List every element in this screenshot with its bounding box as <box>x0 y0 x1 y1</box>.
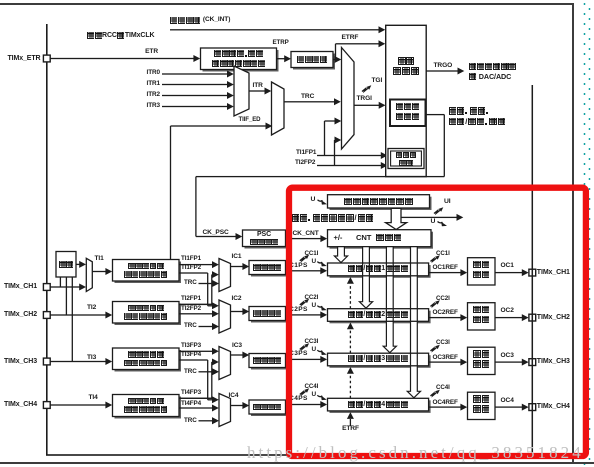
block PSC prescaler PSC预分频器 <box>245 232 288 249</box>
label IC3 <box>232 343 242 350</box>
label CC3I right <box>436 340 450 346</box>
text 预分频器 4 <box>249 404 286 411</box>
text 输出 2 <box>468 306 496 313</box>
label ITR2 <box>140 92 160 98</box>
wire IC4 mux to prescaler <box>231 405 244 406</box>
mux IC4 select <box>219 394 231 427</box>
chip boundary left line <box>46 24 48 456</box>
label TRGO <box>434 63 453 70</box>
label U (ARR update) <box>311 197 316 204</box>
text 控制 4 <box>468 405 496 412</box>
text 输出 1 <box>468 261 496 268</box>
mux trigger select (TRGI source) <box>342 48 355 150</box>
text 输入滤波 <box>291 56 333 63</box>
label U (capture 1) <box>312 259 317 265</box>
label TIMx_CH1 right <box>537 269 570 276</box>
text 输出 4 <box>468 395 496 402</box>
label TRC row4 <box>184 418 197 424</box>
text 编码器 <box>388 152 424 159</box>
block input filter & edge detector 2 输入滤波器和边沿检测器 <box>115 304 182 326</box>
label CK_PSC <box>203 230 229 237</box>
wire TRC from mux to trigger mux <box>284 101 335 102</box>
text 预分频器 <box>243 239 286 246</box>
label CC1I left <box>305 251 319 257</box>
wire TRC into IC4 mux <box>199 420 214 421</box>
block input filter & edge detector 1 输入滤波器和边沿检测器 <box>115 262 182 284</box>
wire ETRP polarity box to input filter <box>277 58 286 59</box>
text 输入滤波器 4 <box>113 398 180 405</box>
label TI2FP2 <box>181 306 201 312</box>
wire IC4PS prescaler to capture/compare 4 <box>286 404 322 405</box>
label TI1FP1 <box>181 256 201 262</box>
label TI1 <box>95 256 104 263</box>
label TIMx_ETR <box>4 55 41 62</box>
label ITR1 <box>140 81 160 87</box>
label IC4PS <box>287 396 308 403</box>
text 捕获/比较3寄存器 <box>328 355 429 362</box>
label TI3 <box>87 355 96 362</box>
label OC4REF <box>433 400 458 406</box>
wire TI4FP3 up to IC3 mux <box>179 398 212 399</box>
wire TRGI into slave mode controller <box>354 105 380 106</box>
label OC2 <box>501 308 514 315</box>
capture/compare register 2 box fill <box>330 311 431 324</box>
label IC2PS <box>287 307 308 314</box>
label U (capture 3) <box>312 347 317 353</box>
label TI2FP1 <box>181 296 201 302</box>
text 接口 <box>388 160 424 167</box>
wire ITR3 into ITR mux <box>162 106 228 107</box>
capture/compare register 3 box fill <box>330 355 431 368</box>
label OC2REF <box>433 310 458 316</box>
capture/compare register 4 border 捕获/比较4寄存器 <box>328 398 429 411</box>
wire IC1PS prescaler to capture/compare 1 <box>286 270 322 271</box>
page top rule <box>0 3 574 5</box>
label 停止、清除或向上/向下 <box>292 214 374 221</box>
label OC1REF <box>433 265 458 271</box>
capture/compare register 2 border 捕获/比较2寄存器 <box>328 309 429 322</box>
label TRC row1 <box>184 280 197 286</box>
wire IC2 mux to prescaler <box>231 311 244 312</box>
pin TIMx_CH4 output <box>529 404 536 411</box>
text +/- <box>334 234 343 242</box>
wire IC3PS prescaler to capture/compare 3 <box>286 359 322 360</box>
block output control 3 输出控制 <box>468 347 496 374</box>
block output control 1 输出控制 <box>468 258 496 285</box>
wire IC2PS prescaler to capture/compare 2 <box>286 314 322 315</box>
block encoder interface 编码器接口 (double border) <box>388 149 424 169</box>
label TI2FP2 (trigger) <box>295 160 315 166</box>
label TIMx_CH4 right <box>537 403 570 410</box>
wire TRC into IC3 mux <box>199 371 214 372</box>
label CC1I right <box>436 251 450 257</box>
label CK_CNT <box>293 231 319 238</box>
wire update event out to right <box>401 217 457 218</box>
label IC1 <box>232 254 242 261</box>
block output control 2 输出控制 <box>468 303 496 330</box>
text 从模式 <box>390 103 426 110</box>
capture/compare register 1 border 捕获/比较1寄存器 <box>328 263 429 276</box>
compare bus arrow CNT to capture/compare 3 <box>383 247 396 353</box>
label ETRF (bottom) <box>334 426 367 433</box>
label TI1FP1 (trigger) <box>296 150 316 156</box>
compare bus arrow CNT to capture/compare 4 <box>407 247 420 398</box>
text 极性选择、边沿 <box>201 50 277 57</box>
text 输入滤波器 1 <box>113 263 180 270</box>
interrupt CC4I right <box>431 393 437 396</box>
text PSC <box>243 231 286 238</box>
label OC3 <box>501 353 514 360</box>
wire OC2 to pin <box>495 317 523 318</box>
block prescaler 4 预分频器 <box>251 402 288 416</box>
event U~ capture 4 <box>317 395 322 396</box>
wire ITR mux to TRC mux <box>249 90 266 91</box>
wire XOR output to TI1 mux <box>76 264 81 265</box>
text 和边沿检测器 2 <box>113 313 180 320</box>
label UI <box>444 199 451 206</box>
wire OC2REF capture to output control <box>429 317 462 318</box>
label U (capture 4) <box>312 392 317 398</box>
wire OC3REF capture to output control <box>429 361 462 362</box>
label ETR <box>142 49 158 56</box>
label TIMx_CH3 right <box>537 358 570 365</box>
block input filter & edge detector 3 输入滤波器和边沿检测器 <box>115 350 182 372</box>
watermark <box>247 443 584 463</box>
label ETRF <box>342 35 359 42</box>
text 和边沿检测器 4 <box>113 406 180 413</box>
label CC3I left <box>305 339 319 345</box>
text 捕获/比较1寄存器 <box>328 265 429 272</box>
label ITR3 <box>140 103 160 109</box>
text 输入滤波器 2 <box>113 305 180 312</box>
mux ITR select (ITR0-ITR3) <box>234 66 249 116</box>
wire ETRF: filter output, branch to trigger ctrl and TRGI mux <box>333 59 336 60</box>
mux IC1 select <box>219 259 231 292</box>
dashed ETRF line with up arrows into capture/compare registers <box>349 284 351 309</box>
pin TIMx_CH2 output <box>529 314 536 321</box>
label TRC row2 <box>184 323 197 329</box>
label TI1FP2 <box>181 265 201 271</box>
mux IC3 select <box>219 347 231 380</box>
text 控制器 <box>386 67 427 75</box>
label CC2I right <box>436 296 450 302</box>
interrupt CC4I left <box>300 391 306 394</box>
wire CK_INT to trigger controller <box>170 29 380 30</box>
mux TI1 select (xor/direct) <box>86 258 92 291</box>
label TRGI <box>357 96 372 103</box>
label ITR <box>253 83 263 90</box>
block XOR 异或 <box>56 252 76 278</box>
label 来自RCC的TIMxCLK <box>87 32 155 39</box>
event U~ capture 3 <box>317 350 322 351</box>
capture/compare register 3 border 捕获/比较3寄存器 <box>328 353 429 366</box>
compare bus arrow CNT to capture/compare 1 <box>334 247 347 263</box>
page bottom rule <box>0 462 594 464</box>
text 控制器 <box>390 113 426 120</box>
label CC4I right <box>436 385 450 391</box>
text 输入滤波器 3 <box>113 351 180 358</box>
wire TI3FP3 straight into mux <box>179 351 213 352</box>
label 向上/向下、计数 <box>449 118 506 125</box>
label OC4 <box>501 398 514 405</box>
label TIMx_CH4 left <box>3 401 37 408</box>
label TRC <box>301 94 314 101</box>
wire IC3 mux to prescaler <box>231 354 244 355</box>
text 和边沿检测器 1 <box>113 271 180 278</box>
label TIMx_CH2 right <box>537 314 570 321</box>
wire TI1FP1 straight into mux <box>179 264 213 265</box>
figure bottom border <box>46 454 573 456</box>
text 异或 <box>56 261 76 268</box>
text 预分频器 1 <box>249 264 286 271</box>
label IC3PS <box>287 351 308 358</box>
block auto-reload register 自动重装载寄存器 <box>330 197 432 210</box>
block prescaler 3 预分频器 <box>251 356 288 370</box>
interrupt CC3I right <box>431 348 437 351</box>
pin TIMx_CH4 (input) <box>43 402 50 409</box>
text 和边沿检测器 3 <box>113 360 180 367</box>
wire TI3FP4 down to IC4 mux <box>179 359 208 360</box>
wire TI1FP1 to encoder interface and trigger mux <box>317 155 382 156</box>
label U (update event) <box>431 219 436 226</box>
text 触发 <box>386 57 427 65</box>
capture/compare register 4 box fill <box>330 400 431 413</box>
wire TI2FP1 straight into mux <box>179 304 213 305</box>
block input filter 输入滤波 <box>293 54 335 70</box>
label TI4 <box>89 395 98 402</box>
output pin bus vertical line <box>532 85 534 455</box>
block polarity select / edge detect / prescaler 极性选择、边沿检测和预分频器 <box>203 50 279 72</box>
label 至其它定时器 <box>469 63 516 70</box>
website dotted background right edge <box>578 0 594 467</box>
interrupt UI <box>434 210 440 213</box>
mux TRC select (ITR / TI1F_ED) <box>272 82 285 135</box>
mux IC2 select <box>219 300 231 333</box>
interrupt CC3I left <box>300 346 306 349</box>
label CC2I left <box>305 295 319 301</box>
event U~ (update) <box>438 222 443 223</box>
wire ITR2 into ITR mux <box>162 95 228 96</box>
label IC2 <box>232 296 242 303</box>
label TGI <box>372 78 383 85</box>
text 控制 2 <box>468 316 496 323</box>
block prescaler 1 预分频器 <box>251 263 288 277</box>
interrupt CC1I right <box>431 258 437 261</box>
pin TIMx_CH3 (input) <box>43 358 50 365</box>
text CNT 计数器 <box>356 234 401 242</box>
wire IC1 mux to prescaler <box>231 266 244 267</box>
pin TIMx_CH3 output <box>529 359 536 366</box>
pin TIMx_ETR <box>43 55 50 62</box>
page right rule <box>572 3 574 464</box>
xor input taps <box>60 277 61 287</box>
event U~ into auto-reload register <box>318 200 323 201</box>
wire TIMx_CH4 pin to filter 4 <box>50 404 106 405</box>
wire ETRF up into capture/compare 4 <box>350 419 351 426</box>
wire ITR0 into ITR mux <box>162 73 228 74</box>
wire OC1 to pin <box>495 272 523 273</box>
pin TIMx_CH2 (input) <box>43 312 50 319</box>
wire TI2FP2 straight into IC2 mux <box>179 313 213 314</box>
label TI3FP3 <box>181 343 201 349</box>
event U~ capture 2 <box>317 306 322 307</box>
text 控制 1 <box>468 271 496 278</box>
wire CK_PSC into PSC prescaler <box>196 236 237 237</box>
text 检测和预分频器 <box>201 60 277 67</box>
label CC4I left <box>305 384 319 390</box>
block output control 4 输出控制 <box>468 392 496 419</box>
label 复位、使能、 <box>449 107 490 114</box>
wire TI4FP3 straight into mux <box>179 398 213 399</box>
text 捕获/比较2寄存器 <box>328 311 429 318</box>
label U (capture 2) <box>312 303 317 309</box>
label TRC row3 <box>184 369 197 375</box>
text 预分频器 3 <box>249 357 286 364</box>
label IC4 <box>229 393 239 400</box>
label TI2 <box>87 305 96 312</box>
text 输出 3 <box>468 350 496 357</box>
wire OC4REF capture to output control <box>429 406 462 407</box>
capture/compare register 1 box fill <box>330 265 431 278</box>
label TIMx_CH2 left <box>3 311 37 318</box>
wire TRC into IC2 mux <box>199 326 214 327</box>
event U~ capture 1 <box>317 262 322 263</box>
block trigger controller 触发控制器 <box>386 25 427 176</box>
text 自动重装载寄存器 <box>328 198 430 206</box>
wire ITR1 into ITR mux <box>162 84 228 85</box>
block CNT counter CNT计数器 <box>330 232 434 249</box>
wire TI4FP4 straight into IC4 mux <box>179 407 213 408</box>
wire TI1 to filter 1 <box>92 271 106 272</box>
interrupt flag TGI <box>362 88 368 91</box>
wire TI2FP2 to encoder interface and trigger mux <box>317 165 382 166</box>
text 预分频器 2 <box>249 310 286 317</box>
wire TRC into IC1 mux <box>199 283 214 284</box>
interrupt CC1I left <box>300 258 306 261</box>
wire OC3 to pin <box>495 361 523 362</box>
label OC3REF <box>433 355 458 361</box>
wire TIMx_CH3 pin to filter 3 <box>50 361 106 362</box>
wire slave mode controller to counter control (reset/enable/up-down/count) <box>426 114 445 115</box>
hollow arrow auto-reload to counter <box>386 208 407 229</box>
wire OC4 to pin <box>495 406 523 407</box>
wire TIMx_CH1 pin to TI1 mux <box>50 286 81 287</box>
text 控制 3 <box>468 360 496 367</box>
label TI4FP4 <box>181 401 201 407</box>
label ITR0 <box>140 70 160 76</box>
block prescaler 2 预分频器 <box>251 309 288 323</box>
wire TI2FP1 up to IC1 mux <box>179 304 212 305</box>
label 内部时钟 (CK_INT) <box>170 17 230 24</box>
wire TI1F_ED from channel1 filter up and right into TRC mux <box>170 126 171 260</box>
label TIMx_CH3 left <box>3 358 37 365</box>
label IC1PS <box>287 263 308 270</box>
label ETRP <box>273 40 289 46</box>
interrupt CC2I right <box>431 303 437 306</box>
wire OC1REF capture to output control <box>429 272 462 273</box>
label TI4FP3 <box>181 390 201 396</box>
block input filter & edge detector 4 输入滤波器和边沿检测器 <box>115 397 182 419</box>
text 捕获/比较4寄存器 <box>328 401 429 408</box>
wire CK_CNT into CNT counter <box>286 238 322 239</box>
pin TIMx_CH1 (input) <box>43 284 50 291</box>
interrupt CC2I left <box>300 302 306 305</box>
label OC1 <box>501 263 514 270</box>
compare bus arrow CNT to capture/compare 2 <box>359 247 372 309</box>
wire TRGO output <box>426 70 458 71</box>
block slave mode controller 从模式控制器 <box>390 100 426 127</box>
label 至 DAC/ADC <box>469 73 511 80</box>
wire TI1FP2 down to IC2 mux <box>179 272 208 273</box>
wire ETR from pin to polarity box <box>50 58 194 59</box>
pin TIMx_CH1 output <box>529 269 536 276</box>
label TI3FP4 <box>181 352 201 358</box>
label TI1F_ED <box>239 117 261 123</box>
wire TIMx_CH2 pin to filter 2 <box>50 314 106 315</box>
label TIMx_CH1 left <box>3 283 37 290</box>
